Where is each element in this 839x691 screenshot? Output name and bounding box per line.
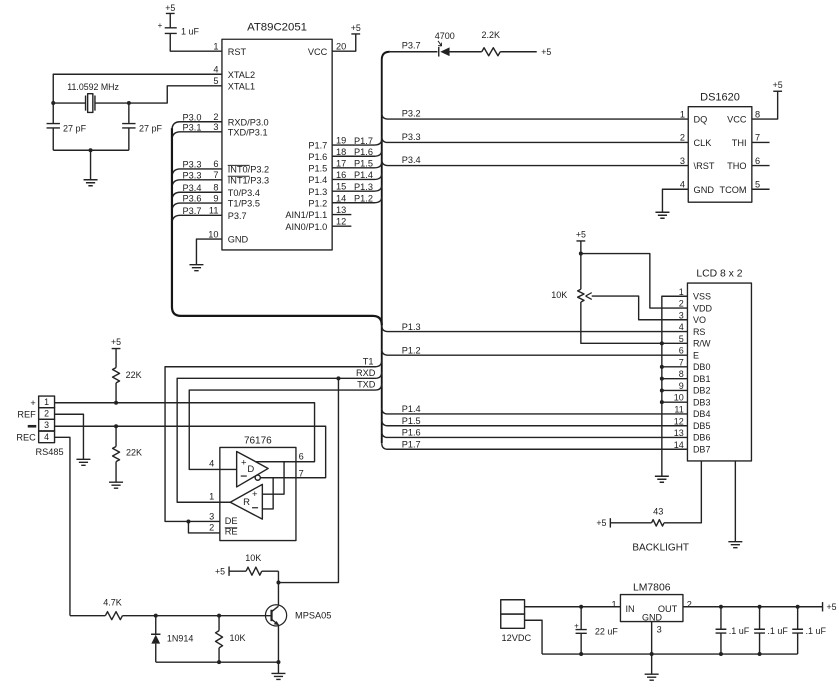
ground LCD [655,476,669,482]
svg-text:12VDC: 12VDC [502,633,532,643]
resistor R4 10K pullup [229,553,278,575]
svg-text:2: 2 [213,112,218,122]
capacitor C1 1uF [158,21,200,37]
svg-text:P1.3: P1.3 [402,322,421,332]
svg-text:3: 3 [213,122,218,132]
svg-text:7: 7 [299,468,304,478]
svg-text:DB7: DB7 [693,444,711,454]
+5 supply at DS1620 [773,90,782,92]
wire LED to resistor [450,51,482,53]
U1 GND wire pin 10 [196,239,222,265]
svg-text:6: 6 [679,346,684,356]
svg-text:2: 2 [44,408,49,418]
wire P3 pin into left bus y=179.6 [172,180,222,189]
node rail emitter [276,660,280,664]
svg-text:.1 uF: .1 uF [767,626,788,636]
op IC U2 DS1620 box [688,91,752,202]
capacitor C .1uF #2 [754,607,788,654]
+5 supply at RST capacitor [165,3,175,28]
wire P3.4 bus to DS1620 [382,160,689,166]
svg-text:22K: 22K [126,447,142,457]
capacitor C4 22uF [574,607,618,654]
svg-text:1: 1 [44,397,49,407]
U3 driver output 7 wire [260,477,325,479]
svg-text:12: 12 [674,416,684,426]
U2 GND wire [662,189,688,212]
svg-text:P3.7: P3.7 [228,211,247,221]
wire 12VDC+ to regulator IN [525,606,621,608]
wire +5 to LCD VDD pin2 [581,254,688,308]
wire XTAL1 pin 5 [129,86,222,103]
svg-text:P1.5: P1.5 [402,416,421,426]
U1 right pin names [285,47,327,232]
svg-text:+5: +5 [165,3,175,13]
svg-text:P3.7: P3.7 [402,41,421,51]
capacitor C3 27pF right [122,103,162,150]
U4 pin numbers [612,599,692,634]
op IC U1 AT89C2051 box [222,22,332,250]
node rail center [89,148,93,152]
capacitor C .1uF #1 [716,607,750,654]
svg-text:4: 4 [680,179,685,189]
wire P1.6 bus to LCD [382,431,688,437]
svg-text:19: 19 [336,136,346,146]
wire pin 13 stub [332,214,351,216]
ground transistor [271,662,285,679]
ground backlight [728,542,742,548]
wire 12VDC- down to rail [525,620,543,654]
wire P1.3 bus to LCD [382,326,688,332]
+5 supply at pot [576,229,586,253]
svg-text:AT89C2051: AT89C2051 [247,22,307,34]
svg-text:REC: REC [16,433,36,443]
wire T1 from bus to 76176 DE/RE [165,360,382,533]
resistor R6 10K pulldown [216,616,246,663]
svg-text:R/W: R/W [693,339,711,349]
svg-text:11: 11 [209,206,219,216]
wire LCD DB3 stub grounded [662,401,688,403]
svg-text:MPSA05: MPSA05 [295,610,331,620]
svg-text:D: D [247,464,254,475]
svg-text:1 uF: 1 uF [181,26,200,36]
wire P3 pin into left bus y=215.1 [172,215,222,224]
svg-text:P1.2: P1.2 [402,345,421,355]
wire resistor to +5 [500,51,537,53]
svg-text:DB5: DB5 [693,421,711,431]
wire P1 pin into bus y=190.9 [332,185,382,191]
wire RS485 pin2 REF to ground [55,414,84,459]
svg-text:DB4: DB4 [693,409,711,419]
svg-text:P1.2: P1.2 [354,193,373,203]
svg-text:BACKLIGHT: BACKLIGHT [632,542,689,553]
svg-text:P1.4: P1.4 [402,404,421,414]
wire P1.2 bus to LCD [382,349,688,355]
wire P3 pin into left bus y=131.6 [172,132,222,141]
U3 DE RE labels [225,516,238,537]
svg-text:VCC: VCC [727,115,747,125]
U3 receiver - input wire [262,478,273,509]
svg-text:P1.3: P1.3 [354,182,373,192]
svg-text:DQ: DQ [694,115,708,125]
svg-text:P1.5: P1.5 [354,159,373,169]
wire P1.5 bus to LCD [382,420,688,426]
wire pot bottom to R/W pin5 [581,302,688,343]
node rail cap2 [758,652,762,656]
node cap top #2 [758,605,762,609]
U3 driver D triangle [237,451,269,487]
svg-text:4: 4 [213,64,218,74]
node GND rail [650,652,654,656]
svg-text:15: 15 [336,182,346,192]
svg-text:+5: +5 [215,566,225,576]
node R/W ground junction [660,341,664,345]
node cap top #3 [796,605,800,609]
svg-text:4: 4 [209,458,214,468]
svg-text:8: 8 [755,109,760,119]
svg-text:1: 1 [612,599,617,609]
svg-text:.1 uF: .1 uF [805,626,826,636]
U3 driver output 6 wire [256,461,315,463]
svg-text:P3.4: P3.4 [402,155,421,165]
svg-text:10K: 10K [551,290,567,300]
node diode junction [154,614,158,618]
U2 pin numbers [680,109,760,189]
svg-text:DE: DE [225,516,238,526]
svg-text:P1.6: P1.6 [354,147,373,157]
op IC U3 76176 box [220,435,296,540]
wire crystal bottom rail [53,149,129,151]
svg-text:GND: GND [642,613,663,623]
svg-text:9: 9 [213,193,218,203]
svg-text:LCD 8 x 2: LCD 8 x 2 [696,269,742,280]
svg-text:AIN1/P1.1: AIN1/P1.1 [285,210,327,220]
svg-text:27 pF: 27 pF [139,123,163,133]
node 22K junction pin1 [114,401,118,405]
svg-text:P1.4: P1.4 [354,170,373,180]
wire output rail [542,653,798,655]
svg-text:6: 6 [213,159,218,169]
svg-text:DB3: DB3 [693,397,711,407]
svg-text:+: + [30,398,35,408]
U1 INT0 INT1 overlines [228,165,250,176]
svg-text:4.7K: 4.7K [103,597,122,607]
svg-text:P3.1: P3.1 [183,122,202,132]
svg-text:P1.3: P1.3 [308,187,327,197]
wire P1 pin into bus y=202.5 [332,197,382,203]
node 10K pulldown junction [217,614,221,618]
wire P3.7 to LED [390,51,438,53]
svg-text:16: 16 [336,170,346,180]
svg-text:P1.6: P1.6 [402,428,421,438]
wire LCD DB0 stub grounded [662,366,688,368]
svg-text:10K: 10K [245,553,261,563]
svg-text:T1/P3.5: T1/P3.5 [228,199,260,209]
svg-text:P3.3: P3.3 [183,159,202,169]
svg-text:DB0: DB0 [693,362,711,372]
capacitor C2 27pF left [47,103,87,150]
svg-text:3: 3 [680,156,685,166]
node rail cap1 [719,652,723,656]
svg-text:P3.7: P3.7 [183,206,202,216]
svg-text:3: 3 [679,310,684,320]
svg-text:+5: +5 [576,229,586,239]
svg-text:22 uF: 22 uF [595,626,619,636]
wire P3 pin into left bus y=168.7 [172,169,222,178]
potentiometer R7 10K [551,254,584,302]
svg-text:2: 2 [209,523,214,533]
wire RS485 pin3 (-) to driver out 7 [55,426,326,477]
node 22uF top [579,605,583,609]
svg-text:14: 14 [336,193,346,203]
resistor R2 22K upper [113,368,142,403]
wire THO stub [752,165,770,167]
svg-text:GND: GND [228,235,249,245]
node crystal left junction [51,101,55,105]
svg-text:+: + [241,457,247,468]
op IC U4 LM7806 box [620,582,683,621]
U1 right pin numbers [336,42,346,227]
svg-text:VO: VO [693,315,706,325]
svg-text:1: 1 [680,109,685,119]
resistor R5 4.7K [103,597,122,619]
wire P1 pin into bus y=179.2 [332,173,382,179]
svg-text:7: 7 [679,357,684,367]
svg-text:RXD/P3.0: RXD/P3.0 [228,117,269,127]
svg-text:5: 5 [213,76,218,86]
svg-text:RXD: RXD [356,368,376,378]
node RXD collector junction [336,376,340,380]
svg-text:E: E [693,350,699,360]
wire collector pullup [277,571,279,606]
svg-text:+5: +5 [541,47,551,57]
ground 22K lower [109,482,123,488]
wire collector to RXD [278,378,338,582]
svg-text:IN: IN [625,604,634,614]
node rail 10K [217,660,221,664]
transistor Q1 MPSA05 [265,605,331,626]
wire P1 pin into bus y=144.8 [332,139,382,145]
svg-text:10K: 10K [229,633,245,643]
svg-text:4: 4 [44,432,49,442]
U3 receiver R triangle [230,484,262,519]
wire RS485 pin4 REC down [55,437,70,615]
svg-text:TXD/P3.1: TXD/P3.1 [228,127,268,137]
svg-text:P1.7: P1.7 [354,136,373,146]
svg-text:2.2K: 2.2K [481,30,500,40]
svg-text:2: 2 [680,133,685,143]
U4 OUT wire to +5 [683,606,823,608]
svg-text:\RST: \RST [694,161,715,171]
resistor R8 43 backlight [652,506,665,526]
svg-text:6: 6 [299,451,304,461]
svg-text:27 pF: 27 pF [63,123,87,133]
wire P3 pin into left bus y=192.0 [172,192,222,201]
svg-text:T1: T1 [363,356,374,366]
capacitor C .1uF #3 [792,607,826,654]
svg-text:+: + [158,21,163,30]
svg-text:13: 13 [674,428,684,438]
svg-text:8: 8 [213,182,218,192]
svg-text:VSS: VSS [693,291,711,301]
svg-text:3: 3 [44,420,49,430]
svg-text:RS485: RS485 [36,447,64,457]
svg-text:CLK: CLK [694,138,713,148]
wire bottom rail [156,661,279,663]
svg-text:P3.6: P3.6 [183,194,202,204]
node rail 22uF [579,652,583,656]
wire LCD DB1 stub grounded [662,378,688,380]
connector J1 RS485 [16,396,63,457]
svg-text:13: 13 [336,205,346,215]
svg-text:+5: +5 [596,518,606,528]
wire LCD backlight lead right [734,461,736,542]
svg-text:DS1620: DS1620 [700,91,740,103]
ground REF [76,459,90,465]
svg-text:LM7806: LM7806 [633,582,671,593]
svg-text:9: 9 [679,381,684,391]
svg-text:P3.0: P3.0 [183,112,202,122]
resistor R3 22K lower [113,426,142,482]
wire pin 12 stub [332,225,351,227]
svg-text:18: 18 [336,147,346,157]
wire P3.2 bus to DS1620 [382,113,689,119]
net labels P1.x right of U1 [354,136,373,204]
LED D1 4700 [435,31,455,57]
svg-text:RS: RS [693,327,706,337]
+5 supply output [822,602,824,611]
+5 supply above 22K [111,337,121,368]
wire left P3 bus (thick) [172,128,382,325]
svg-text:17: 17 [336,158,346,168]
svg-text:.1 uF: .1 uF [729,626,750,636]
svg-text:P1.7: P1.7 [308,141,327,151]
+5 supply at 10K pullup [228,566,230,575]
svg-text:76176: 76176 [244,435,272,446]
ground crystal [84,150,98,186]
node T1 DE junction [186,519,190,523]
pot wiper arrow to VO pin3 [586,293,688,320]
svg-text:1N914: 1N914 [167,633,194,643]
node collector junction [276,581,280,585]
svg-text:DB6: DB6 [693,433,711,443]
svg-text:43: 43 [653,506,663,516]
svg-text:TCOM: TCOM [720,185,747,195]
node crystal right junction [127,101,131,105]
op LCD 8 x 2 box [687,269,751,461]
svg-text:RST: RST [228,47,247,57]
svg-text:1: 1 [213,41,218,51]
+5 supply backlight [596,518,651,528]
LCD pin numbers [674,287,684,450]
svg-text:2: 2 [679,299,684,309]
svg-text:T0/P3.4: T0/P3.4 [228,188,260,198]
wire emitter down [277,625,279,662]
U4 GND wire [651,622,653,675]
svg-text:11: 11 [674,404,683,414]
svg-text:THO: THO [727,161,746,171]
svg-text:INT1/P3.3: INT1/P3.3 [228,175,269,185]
U1 left pin numbers [208,41,218,239]
svg-text:1: 1 [209,491,214,501]
svg-text:P3.2: P3.2 [402,108,421,118]
wire 1uF to RST pin 1 [170,33,222,51]
svg-text:1: 1 [679,287,684,297]
resistor R1 2.2K [481,30,500,56]
wire P1 pin into bus y=167.6 [332,162,382,168]
svg-text:+5: +5 [111,337,121,347]
svg-text:P1.6: P1.6 [308,152,327,162]
wire P1.4 bus to LCD [382,408,688,414]
svg-text:+: + [574,621,579,630]
wire 4.7K to base [122,615,271,617]
node 22K junction pin3 [114,424,118,428]
wire THI stub [752,141,770,143]
crystal Y1 11.0592 MHz [53,82,129,113]
wire LCD backlight lead left [664,461,701,523]
svg-text:REF: REF [17,409,36,419]
wire RXD from bus to 76176 R out [177,372,382,502]
wire P3 pin into left bus y=121.5 [172,122,222,131]
svg-text:10: 10 [674,393,684,403]
wire LCD VSS pin1 to ground line [662,296,688,476]
wire XTAL2 pin 4 [53,74,222,103]
svg-text:+: + [252,489,258,500]
svg-text:12: 12 [336,217,346,227]
svg-text:INT0/P3.2: INT0/P3.2 [228,165,269,175]
svg-text:+5: +5 [773,80,783,90]
U2 VCC wire [752,91,778,119]
wire TCOM stub [752,188,770,190]
wire P3 pin into left bus y=202.8 [172,203,222,212]
svg-text:4: 4 [679,322,684,332]
svg-text:AIN0/P1.0: AIN0/P1.0 [285,222,327,232]
svg-text:+5: +5 [351,23,361,33]
node cap top #1 [719,605,723,609]
U3 pin numbers [209,458,214,532]
ground DS1620 [655,212,669,218]
svg-text:3: 3 [657,624,662,634]
svg-text:5: 5 [679,334,684,344]
svg-text:14: 14 [674,440,684,450]
svg-text:11.0592 MHz: 11.0592 MHz [67,82,119,92]
wire P3.3 bus to DS1620 [382,136,689,142]
svg-text:P1.4: P1.4 [308,175,327,185]
svg-text:XTAL1: XTAL1 [228,81,255,91]
svg-text:6: 6 [755,156,760,166]
connector J2 12VDC [501,600,532,643]
svg-text:10: 10 [208,229,218,239]
svg-text:P1.7: P1.7 [402,439,421,449]
wire TXD from bus to 76176 D in [189,384,382,470]
node pot top junction [579,252,583,256]
wire RS485 pin1 (+) to driver out 6 [55,403,315,462]
U3 driver inverting bubble [255,475,260,480]
svg-text:THI: THI [732,138,747,148]
svg-text:P3.3: P3.3 [402,132,421,142]
svg-text:DB1: DB1 [693,374,711,384]
U1 VCC wire pin 20 [332,34,356,51]
LCD pin names [693,291,713,454]
svg-text:20: 20 [336,42,346,52]
wire P1 pin into bus y=156.0 [332,150,382,156]
wire LCD DB2 stub grounded [662,389,688,391]
ground regulator [645,674,659,680]
svg-text:7: 7 [755,133,760,143]
U3 receiver + input wire [262,462,284,495]
svg-text:DB2: DB2 [693,386,711,396]
svg-text:P3.3: P3.3 [183,170,202,180]
svg-text:+5: +5 [827,602,837,612]
